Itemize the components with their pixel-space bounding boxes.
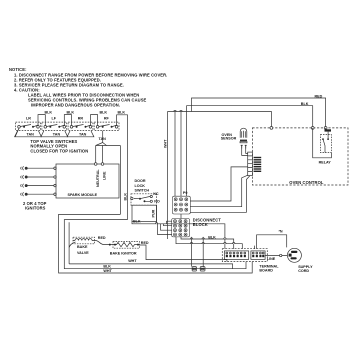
connector teeth inside oven control — [254, 157, 262, 172]
svg-text:BAKE IGNITOR: BAKE IGNITOR — [110, 252, 137, 256]
svg-text:BLOCK: BLOCK — [193, 222, 208, 227]
wire BLK bridge RR-RF — [91, 115, 98, 126]
wire bake valve left lead to bus — [69, 242, 75, 248]
wire BLK from RF right terminal down right side — [117, 115, 128, 220]
wire hop bumps on BLK row — [190, 238, 226, 239]
svg-text:IGNITORS: IGNITORS — [25, 205, 46, 210]
svg-text:DOOR: DOOR — [135, 179, 146, 183]
svg-text:WHT: WHT — [164, 139, 168, 148]
svg-text:RED: RED — [141, 241, 149, 245]
wire TAN loop left corner — [59, 214, 253, 273]
wire hop bumps — [174, 110, 182, 111]
wire BLK bridge LR-LF — [38, 115, 45, 126]
wire TAN from RF valve switch down to spark module bus — [96, 131, 107, 146]
svg-text:TAN: TAN — [79, 133, 87, 137]
svg-text:SENSOR: SENSOR — [221, 137, 237, 141]
wire RED top — [192, 98, 326, 127]
svg-text:BAKE: BAKE — [77, 245, 88, 249]
wire bake valve to bake ignitor — [96, 241, 115, 245]
wire BLK loop second corner — [64, 220, 246, 269]
svg-text:BLK: BLK — [301, 102, 309, 106]
svg-text:BLK: BLK — [67, 111, 75, 115]
label 2 OR 4 TOP IGNITORS — [23, 201, 47, 210]
igniter 2 wire and terminal — [21, 175, 57, 179]
wire N from terminal board to supply cord — [254, 235, 286, 249]
wire third vertical to line1 — [68, 222, 70, 264]
svg-text:TAN: TAN — [27, 133, 35, 137]
svg-text:4. CAUTION:: 4. CAUTION: — [14, 87, 40, 92]
wire second row below disconnect block — [176, 237, 242, 249]
svg-text:BOARD: BOARD — [259, 268, 273, 272]
connector strip P1 at oven control edge — [248, 152, 253, 176]
svg-text:TAN: TAN — [99, 137, 107, 141]
door lock body box — [132, 205, 157, 221]
svg-text:BLK: BLK — [133, 220, 141, 224]
svg-text:P9: P9 — [183, 191, 188, 195]
svg-text:SPARK MODULE: SPARK MODULE — [68, 193, 98, 197]
svg-text:NEUTRAL: NEUTRAL — [96, 169, 100, 187]
wire PUR from door lock NO down — [156, 205, 158, 224]
wire from disconnect area down to BLK bus — [192, 237, 204, 267]
wires disconnect block left rows to door lock node — [158, 221, 172, 234]
wire BLK top — [186, 106, 312, 127]
svg-text:LOCK: LOCK — [135, 184, 146, 188]
svg-text:CORD: CORD — [298, 269, 309, 273]
oven control terminal circles on top edge — [270, 127, 327, 130]
igniter 4 wire and terminal — [21, 192, 57, 196]
wire TAN bus above spark module — [96, 145, 121, 147]
svg-text:IMPROPER AND DANGEROUS OPERATI: IMPROPER AND DANGEROUS OPERATION. — [31, 103, 120, 108]
svg-text:OVEN CONTROL: OVEN CONTROL — [289, 180, 324, 185]
inline connector pair on BLK bus — [192, 267, 205, 271]
svg-text:BLK: BLK — [208, 236, 216, 240]
wire WHT vertical down left of connectors — [167, 112, 169, 240]
svg-text:NOTICE:: NOTICE: — [9, 67, 27, 72]
wire from oven control down to P9 row3 — [190, 176, 250, 213]
terminal board block A — [224, 251, 248, 260]
top valve switch RF — [94, 122, 119, 131]
svg-text:RELAY: RELAY — [319, 160, 332, 164]
top valve switch LF — [41, 122, 68, 137]
svg-text:WHT: WHT — [103, 269, 112, 273]
svg-text:BLK: BLK — [103, 265, 111, 269]
spark module box — [56, 146, 119, 199]
wire bus line1 — [69, 264, 233, 269]
wire from connector bottom to P9 row2 — [190, 175, 247, 207]
wire hop bumps on second row — [190, 243, 235, 244]
terminal board block B — [251, 251, 265, 260]
igniter 3 wire and terminal — [21, 184, 57, 188]
relay box — [313, 128, 332, 158]
connector P9 — [173, 196, 191, 214]
svg-text:BLK: BLK — [124, 193, 128, 201]
wire BLK bridge LF-RR — [64, 115, 71, 126]
bake ignitor resistor — [113, 242, 140, 249]
bake valve coil — [73, 237, 96, 244]
svg-text:CLOSED FOR TOP IGNITION: CLOSED FOR TOP IGNITION — [30, 148, 88, 153]
svg-text:WHT: WHT — [128, 259, 137, 263]
label TOP VALVE SWITCHES note — [30, 139, 88, 154]
svg-text:BLK: BLK — [45, 111, 53, 115]
terminal board dashed box — [222, 249, 267, 262]
top valve switch RR — [67, 122, 94, 137]
svg-text:LINE: LINE — [103, 171, 107, 180]
igniter 1 wire and terminal — [21, 166, 57, 170]
top valve switch LR — [15, 122, 42, 137]
svg-text:LR: LR — [26, 116, 31, 120]
oven control dashed box — [252, 128, 348, 185]
supply cord plug — [287, 248, 301, 262]
wire BLK row below disconnect block — [181, 237, 234, 249]
wire P9 to disconnect block — [180, 214, 182, 219]
svg-text:RF: RF — [104, 116, 110, 120]
svg-text:LF: LF — [52, 116, 57, 120]
svg-text:RED: RED — [98, 236, 106, 240]
notice text block — [9, 67, 167, 108]
svg-text:TAN: TAN — [53, 133, 61, 137]
wire LINE terminal board to supply cord — [265, 255, 287, 257]
wire TAN bus corner down to lower left loop — [119, 146, 121, 215]
svg-text:NO: NO — [154, 199, 160, 203]
svg-text:VALVE: VALVE — [77, 251, 89, 255]
svg-text:RED: RED — [315, 94, 323, 98]
wire bake ignitor to PUR junction — [139, 245, 227, 262]
wire vertical to P9 pin 1 — [174, 112, 176, 197]
svg-text:*N: *N — [279, 230, 283, 234]
wire WHT horizontal to oven control — [168, 112, 272, 127]
wire below door lock — [132, 222, 225, 249]
svg-text:RR: RR — [78, 116, 84, 120]
oven sensor symbol — [240, 128, 247, 148]
wire vertical to P9 pin 2 — [180, 112, 182, 197]
svg-text:PUR: PUR — [152, 209, 156, 217]
svg-text:BLK: BLK — [100, 111, 108, 115]
wire from connector area left to P9 row1 — [190, 167, 247, 201]
door lock switch — [131, 194, 157, 205]
wire PUR hop over door lock bottom wire — [155, 223, 157, 224]
svg-text:SWITCH: SWITCH — [135, 189, 150, 193]
wire vertical to P9 pin 3 — [185, 106, 187, 197]
wire oven sensor leads to connector — [242, 149, 248, 156]
svg-text:LINE: LINE — [267, 257, 276, 261]
svg-text:NC: NC — [153, 192, 159, 196]
svg-text:BLK: BLK — [118, 111, 126, 115]
disconnect block connector — [172, 219, 190, 237]
